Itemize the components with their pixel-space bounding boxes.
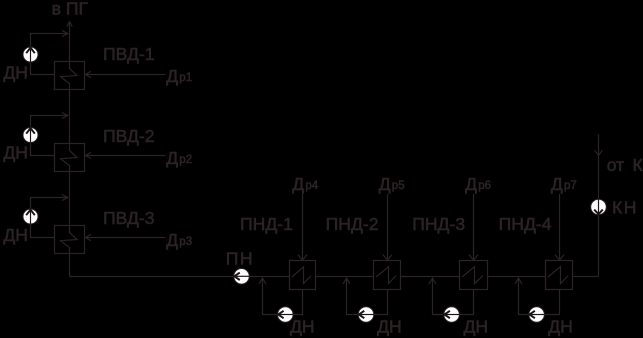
svg-text:ДН: ДН <box>3 225 28 245</box>
svg-text:в ПГ: в ПГ <box>52 0 89 19</box>
svg-text:р7: р7 <box>564 180 577 192</box>
svg-text:Д: Д <box>166 148 178 168</box>
svg-text:ДН: ДН <box>464 316 489 336</box>
svg-text:р2: р2 <box>179 154 192 166</box>
svg-text:от: от <box>607 155 624 175</box>
svg-text:ДН: ДН <box>290 316 315 336</box>
svg-text:ПНД-1: ПНД-1 <box>240 214 293 234</box>
svg-text:ПНД-2: ПНД-2 <box>326 214 379 234</box>
svg-text:ДН: ДН <box>3 63 28 83</box>
svg-text:КН: КН <box>612 198 638 218</box>
svg-text:Д: Д <box>379 174 391 194</box>
svg-text:ДН: ДН <box>548 316 573 336</box>
svg-text:ПНД-3: ПНД-3 <box>412 214 465 234</box>
svg-text:ПВД-2: ПВД-2 <box>103 126 155 146</box>
svg-text:Д: Д <box>465 174 477 194</box>
svg-text:Д: Д <box>551 174 563 194</box>
svg-text:р5: р5 <box>392 180 405 192</box>
svg-text:р4: р4 <box>305 180 318 192</box>
svg-text:Д: Д <box>166 66 178 86</box>
svg-text:ПНД-4: ПНД-4 <box>499 214 552 234</box>
svg-text:Д: Д <box>292 174 304 194</box>
svg-text:р1: р1 <box>179 72 192 84</box>
svg-text:ДН: ДН <box>377 316 402 336</box>
svg-text:К: К <box>633 155 643 175</box>
svg-text:Д: Д <box>166 230 178 250</box>
svg-text:ПВД-1: ПВД-1 <box>103 44 155 64</box>
svg-text:р6: р6 <box>478 180 491 192</box>
svg-text:ПВД-3: ПВД-3 <box>103 208 155 228</box>
svg-text:ДН: ДН <box>3 143 28 163</box>
svg-text:ПН: ПН <box>226 248 254 268</box>
svg-text:р3: р3 <box>179 236 192 248</box>
